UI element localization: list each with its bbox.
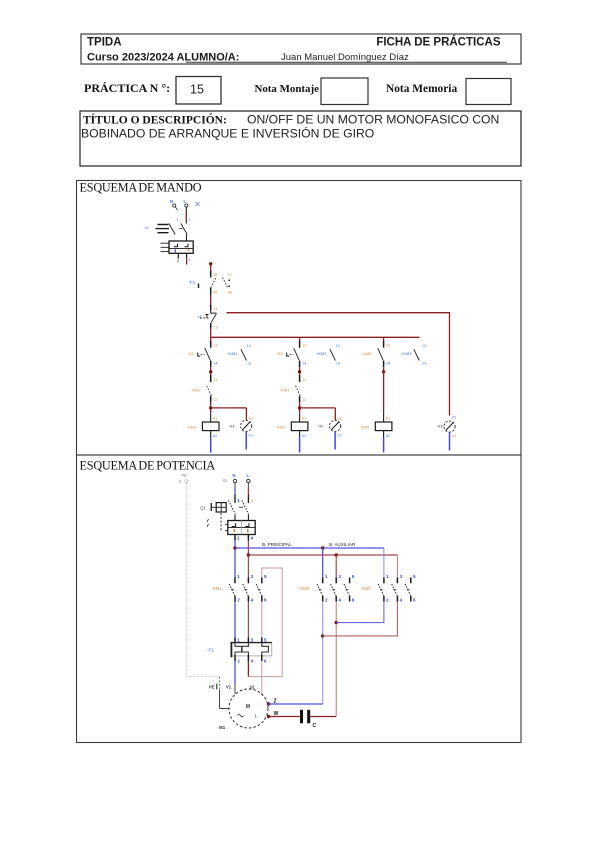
wire capacitor to KM2 pole2 [310,716,336,718]
KM1 designator [212,586,223,591]
svg-text:1: 1 [255,714,258,719]
wire N bus to KM3 pole1 [383,548,385,578]
svg-text:PE: PE [182,473,188,478]
svg-text:5: 5 [352,574,355,579]
wire S3 to junction [299,367,301,375]
capacitor C plates [300,710,310,724]
wire Z to KM2 pole1 [269,703,323,705]
name underline [186,61,507,63]
wire contact to coil KM3 [383,367,385,413]
svg-text:24: 24 [386,362,390,366]
F1 designator [189,280,200,288]
svg-text:1: 1 [237,498,240,503]
svg-text:A2: A2 [386,434,391,438]
F1 overload box [230,643,271,658]
phase bus wire [248,554,397,556]
F1 output pins [235,655,267,663]
wire KM3 pole2 down and cross to KM2 pole1 [323,602,398,636]
breaker Q1 actuator box [211,503,227,512]
wire L bus to KM2 pole2 [335,555,337,578]
wire F1 pin2 to motor V1 [234,661,236,694]
KM2 pole1 contact [317,574,328,603]
aux contact KM2 13-14 (hold-in) [316,344,340,366]
coil KM2 box [291,422,308,431]
motor 1~ symbol [238,714,258,719]
wire F1 to S1 [210,295,212,306]
aux contact KM1 23-24 [378,337,391,367]
breaker pin stubs below [177,253,191,263]
S1 designator and mushroom actuator [198,314,209,319]
wire neutral tail coil KM3 [383,438,385,453]
wire stub below breaker [186,258,188,264]
terminal X1:L circle [185,204,188,207]
control bus wire [211,336,420,338]
svg-text:-S3: -S3 [276,351,283,356]
svg-text:98: 98 [228,291,232,295]
breaker Q1 designator [200,506,207,511]
svg-text:B. PRINCIPAL: B. PRINCIPAL [262,542,292,547]
pin 1 label of Q0 [177,218,179,222]
wire L bus vertical [247,541,249,578]
svg-text:N: N [170,199,173,204]
wire neutral tail coil KM1 [210,438,212,453]
coil KM3 box [375,422,392,431]
wire Q0 to breaker box [186,235,188,242]
wire neutral tail lamp H1 [245,432,247,450]
wire KM2 pole1 down to motor Z [322,602,324,705]
practice number box [176,77,221,105]
lamp H1 [230,417,253,438]
svg-text:FICHA DE PRÁCTICAS: FICHA DE PRÁCTICAS [376,36,500,49]
S2 designator and actuator [188,351,205,356]
svg-text:-KM2: -KM2 [191,388,201,393]
svg-text:4: 4 [189,258,191,262]
junction node L bus [247,553,250,556]
svg-text:11: 11 [214,307,218,311]
header box [81,34,521,64]
wire KM3 pole1 down and cross to KM2 pole2 [336,602,384,623]
svg-text:M1: M1 [219,725,226,730]
wire KM2 pole2 down to capacitor line [335,602,337,717]
wire KM1 pole3 down to F1 pole3 [261,602,263,638]
lamp H2 [318,417,341,438]
KM2 designator [299,586,310,591]
svg-text:14: 14 [213,362,217,366]
label B. PRINCIPAL [262,542,292,547]
aux contact KM1 13-14 (hold-in) [227,344,251,366]
svg-text:96: 96 [213,291,217,295]
wire N bus to KM2 pole1 [322,548,324,578]
Q1 output pins [235,535,254,541]
svg-text:X2: X2 [452,434,457,438]
KM1 pole3 contact [256,574,267,603]
KM3 pole3 contact [405,574,416,603]
svg-text:KM3: KM3 [361,425,370,430]
svg-text:H2: H2 [318,424,324,429]
branch3 contact designator [362,351,372,356]
PE green conductor to motor [220,677,230,709]
motor M letter [246,704,250,710]
node L terminal label [184,199,187,204]
KM2 pole3 contact [344,574,355,603]
svg-text:12: 12 [213,398,217,402]
coil KM2 pin A1 [300,413,307,422]
F1 input pins [235,638,267,644]
terminal N circle [233,479,236,482]
svg-text:2: 2 [237,536,240,541]
svg-text:+KM1: +KM1 [227,351,238,356]
svg-text:Uf: Uf [145,225,150,230]
svg-text:X1: X1 [223,478,229,483]
wire F1 pin6 to motor U1 [261,661,263,695]
svg-text:-KM3: -KM3 [360,586,371,591]
breaker Q1 mech link dashes [207,513,221,531]
wire dot to F1 [210,265,212,271]
svg-text:14: 14 [247,362,251,366]
svg-text:A1: A1 [302,417,307,421]
node start dot of control line [209,262,212,265]
KM2 interlock designator [191,388,201,393]
svg-text:24: 24 [422,362,426,366]
thermal contact F1 95-96 [211,271,218,295]
svg-text:L: L [247,473,250,478]
breaker QF box [161,241,194,253]
label B. AUXILIAR [329,542,356,547]
wire to coil junction [210,402,212,413]
svg-text:2: 2 [189,218,191,222]
svg-text:C: C [313,723,317,729]
start button S3 contact 13-14 [294,337,307,367]
svg-text:1: 1 [325,574,328,579]
svg-text:3: 3 [338,574,341,579]
PE terminal label [182,473,188,478]
wire KM1 pole3 bypass loop [248,568,282,677]
nota memoria box [466,79,511,105]
terminal L circle [247,479,250,482]
svg-text:11: 11 [302,378,306,382]
wire neutral tail lamp H3 [449,432,451,450]
svg-text:X: X [179,479,182,484]
svg-text:X2: X2 [248,434,253,438]
svg-text:KM2: KM2 [277,425,286,430]
PE cross symbol [196,202,200,206]
svg-text:X1: X1 [337,417,342,421]
interlock contact KM1 11-12 [296,375,307,402]
svg-text:1: 1 [237,638,240,643]
wire lamp feeder top [227,313,450,416]
svg-text:3: 3 [400,574,403,579]
PE dotted conductor [186,483,219,677]
svg-text:ON/OFF DE UN MOTOR MONOFASICO: ON/OFF DE UN MOTOR MONOFASICO CON [247,113,499,127]
breaker Q1 pole 1 blade [228,500,235,514]
svg-text:A1: A1 [386,417,391,421]
svg-text:+KM3: +KM3 [401,351,412,356]
svg-text:11: 11 [213,378,217,382]
switch Q0 pole N blade [169,223,175,234]
KM3 designator [360,586,371,591]
svg-text:BOBINADO DE ARRANQUE E INVERSI: BOBINADO DE ARRANQUE E INVERSIÓN DE GIRO [81,126,374,141]
junction node on KM2 pole2 [335,621,338,624]
wire KM1 pole1 to F1 [234,602,236,638]
svg-text:23: 23 [422,344,426,348]
coil KM3 pin A2 [384,431,391,438]
svg-text:X1: X1 [248,417,253,421]
svg-text:3: 3 [251,499,253,503]
lamp H1 feed stub [245,408,247,420]
svg-text:M: M [246,704,250,710]
svg-text:12: 12 [302,398,306,402]
motor M1 circle [229,689,268,728]
svg-text:4: 4 [338,597,341,602]
KM3 pole2 contact [392,574,403,603]
coil KM1 pin A2 [211,431,218,438]
svg-text:H1: H1 [230,424,236,429]
svg-text:6: 6 [264,659,267,664]
wire L to Q1 [248,483,252,503]
svg-text:14: 14 [302,362,306,366]
description box [80,111,521,166]
wire N to Q1 [235,483,240,503]
terminal X1:N circle [173,204,178,210]
svg-text:2: 2 [177,259,179,263]
switch Q0 manual actuator bars [156,225,170,233]
wire L down to switch Q0 [185,207,187,223]
wire neutral tail lamp H2 [334,432,336,450]
junction node lamp1 feed [209,406,212,409]
wire F1 pin4 down [247,661,249,677]
svg-text:Curso 2023/2024 ALUMNO/A:: Curso 2023/2024 ALUMNO/A: [87,52,239,64]
lamp H2 feed stub [334,408,336,420]
svg-text:PRÁCTICA N °:: PRÁCTICA N °: [84,81,170,95]
svg-text:4: 4 [400,597,403,602]
svg-text:13: 13 [247,344,251,348]
coil KM2 designator [277,425,286,430]
svg-text:TPIDA: TPIDA [87,37,122,49]
coil KM1 designator [188,425,197,430]
svg-text:X1: X1 [452,416,457,420]
svg-text:A2: A2 [302,434,307,438]
svg-text:-F1: -F1 [207,648,214,653]
svg-text:Q1: Q1 [200,506,207,511]
svg-text:2: 2 [386,597,389,602]
svg-text:13: 13 [213,344,217,348]
junction node branch2 [298,370,301,373]
wire to lamp H2 [300,407,336,409]
neutral bus wire [235,547,384,549]
KM1 pole2 contact [243,574,254,603]
svg-text:+KM2: +KM2 [316,351,327,356]
wire S1 to bus [210,329,212,338]
svg-text:-KM1: -KM1 [212,586,223,591]
svg-text:-KM1: -KM1 [280,388,290,393]
svg-text:3: 3 [251,638,254,643]
node N terminal label [170,199,173,204]
coil KM2 pin A2 [300,431,307,438]
coil KM1 pin A1 [211,413,218,422]
svg-text:3: 3 [251,574,254,579]
svg-text:V1: V1 [226,685,232,690]
pin 2 label of Q0 [189,218,191,222]
svg-text:Nota Montaje: Nota Montaje [255,83,320,95]
svg-text:-S2: -S2 [188,351,195,356]
junction node branch3 [382,370,385,373]
coil KM1 box [202,422,219,431]
terminal X1 label [223,478,229,483]
coil KM3 designator [361,425,370,430]
PE terminal symbol [179,479,188,484]
capacitor C label [313,723,317,729]
svg-text:14: 14 [336,362,340,366]
node N terminal label [233,473,236,478]
stop button S1 contact [211,305,218,330]
PE label at motor [209,684,217,690]
svg-text:X2: X2 [337,434,342,438]
node W terminal dot [267,711,279,718]
start button S2 contact 13-14 [205,337,218,367]
svg-text:6: 6 [264,597,267,602]
svg-text:-F1: -F1 [189,280,196,285]
junction node KM2 on L bus [335,553,338,556]
svg-text:-KM2: -KM2 [362,351,372,356]
junction node branch1 [209,370,212,373]
svg-text:Nota Memoria: Nota Memoria [386,83,457,95]
nota montaje box [321,78,368,105]
svg-text:ESQUEMA DE POTENCIA: ESQUEMA DE POTENCIA [80,459,216,473]
coil KM3 pin A1 [384,413,391,422]
wire N bus vertical [234,541,236,578]
junction node on KM2 pole1 [321,634,324,637]
junction node N bus [233,546,236,549]
wire W to capacitor [269,716,300,718]
svg-text:4: 4 [251,536,254,541]
potencia panel box [77,455,522,743]
V1 label [226,685,232,690]
KM3 pole1 contact [378,574,389,603]
svg-text:6: 6 [413,597,416,602]
svg-text:23: 23 [386,344,390,348]
node Z terminal dot [267,699,277,706]
aux contact KM3 23-24 (parallel) [401,344,426,366]
wire S2 to junction [210,367,212,375]
breaker Q1 thermal box [225,521,255,535]
svg-text:95: 95 [213,273,217,277]
U1 label [250,685,256,690]
svg-text:PE: PE [209,685,215,690]
svg-text:L: L [184,199,187,204]
svg-text:4: 4 [251,597,254,602]
svg-text:-KM2: -KM2 [299,586,310,591]
interlock contact KM2 11-12 [207,375,218,402]
svg-text:5: 5 [264,574,267,579]
svg-text:1: 1 [237,574,240,579]
svg-text:4: 4 [251,659,254,664]
svg-text:13: 13 [336,344,340,348]
wire to coil junction [299,402,301,413]
mando panel box [77,181,522,456]
svg-text:5: 5 [413,574,416,579]
junction node KM2 on N bus [321,546,324,549]
KM2 pole2 contact [331,574,342,603]
svg-text:A1: A1 [213,417,218,421]
F1 designator [207,648,214,653]
switch Q0 pole L blade [179,223,187,234]
node L terminal label [247,473,250,478]
svg-text:6: 6 [352,597,355,602]
S3 designator and actuator [276,351,293,356]
svg-text:B. AUXILIAR: B. AUXILIAR [329,542,356,547]
svg-text:5: 5 [264,638,267,643]
svg-text:N: N [233,473,236,478]
wire neutral tail coil KM2 [299,438,301,453]
motor M1 designator [219,725,226,730]
svg-text:2: 2 [237,597,240,602]
svg-text:ESQUEMA DE MANDO: ESQUEMA DE MANDO [80,181,202,195]
svg-text:13: 13 [302,344,306,348]
breaker Q1 pole 2 blade [239,500,249,514]
lamp H3 [438,416,457,439]
wire L bus to KM3 pole2 [396,555,398,578]
svg-text:TÍTULO O DESCRIPCIÓN:: TÍTULO O DESCRIPCIÓN: [83,113,227,127]
KM1 pole1 contact [229,574,240,603]
svg-text:15: 15 [190,83,204,97]
svg-text:1: 1 [177,218,179,222]
svg-text:12: 12 [214,326,218,330]
svg-text:A2: A2 [213,434,218,438]
junction node lamp2 feed [298,406,301,409]
wires blades to thermal box [235,515,248,521]
KM1 interlock designator [280,388,290,393]
switch Q0 designator [145,225,150,230]
svg-text:97: 97 [228,273,232,277]
wire KM1 pole2 to F1 [247,602,249,638]
svg-text:2: 2 [237,659,240,664]
svg-text:H3: H3 [438,424,444,429]
svg-text:1: 1 [386,574,389,579]
thermal contact F1 97-98 [223,273,232,295]
svg-text:Juan Manuel Domínguez Díaz: Juan Manuel Domínguez Díaz [281,52,409,63]
wire to lamp H1 [211,407,247,409]
svg-text:2: 2 [325,597,328,602]
svg-text:KM1: KM1 [188,425,197,430]
